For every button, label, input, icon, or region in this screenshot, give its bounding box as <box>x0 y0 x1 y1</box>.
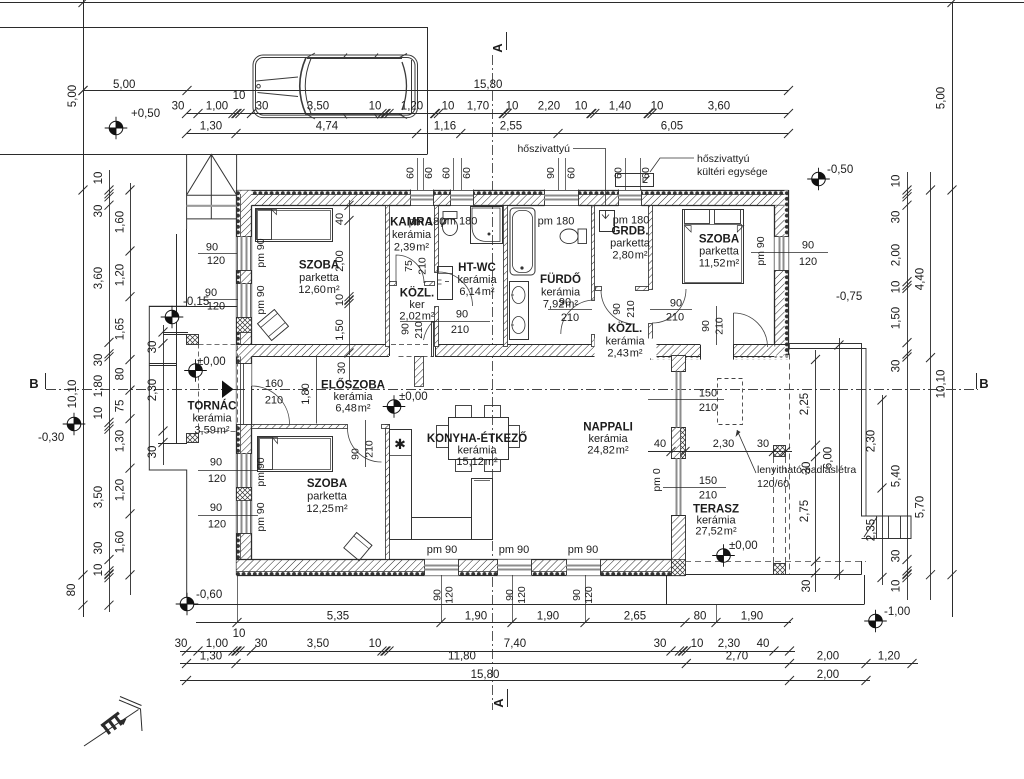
svg-text:150: 150 <box>699 475 717 487</box>
partition grdb | szoba11,52 lower stub <box>649 324 653 347</box>
dim row bottom 1,30/11,80/2,70/2,00/1,20 <box>180 663 918 665</box>
window furdo in top wall <box>545 190 579 207</box>
svg-text:pm 180: pm 180 <box>538 216 575 228</box>
svg-text:2,25: 2,25 <box>799 393 811 415</box>
svg-text:2,30: 2,30 <box>147 379 159 401</box>
gate symbol southwest <box>84 697 142 747</box>
svg-text:90: 90 <box>611 303 623 315</box>
svg-text:120/60: 120/60 <box>757 478 789 490</box>
svg-text:-0,50: -0,50 <box>827 164 853 176</box>
svg-text:10: 10 <box>651 101 664 113</box>
svg-text:1,60: 1,60 <box>115 531 127 553</box>
dim 40/2,30/30 nappali-terasz line <box>648 451 792 453</box>
svg-text:pm 90: pm 90 <box>255 238 267 267</box>
svg-text:2,02 m²: 2,02 m² <box>399 311 434 323</box>
window nappali south 1 <box>425 560 459 576</box>
elevation marker -0,60 southwest <box>176 593 199 616</box>
svg-text:✱: ✱ <box>394 436 406 452</box>
svg-text:1,40: 1,40 <box>609 101 631 113</box>
svg-text:90: 90 <box>206 242 218 254</box>
svg-text:120: 120 <box>444 586 456 604</box>
svg-text:2,30: 2,30 <box>718 638 740 650</box>
svg-text:1,20: 1,20 <box>401 101 423 113</box>
dim chain tornac x163 <box>163 325 165 465</box>
svg-text:30: 30 <box>93 542 105 555</box>
bed in szoba12,60 <box>256 209 333 242</box>
site second line <box>0 27 428 29</box>
svg-text:HT-WC: HT-WC <box>458 262 496 274</box>
svg-text:30: 30 <box>256 101 269 113</box>
svg-text:3,50: 3,50 <box>93 486 105 508</box>
house top wall masonry <box>237 195 789 206</box>
svg-text:kerámia: kerámia <box>457 274 497 286</box>
svg-text:KÖZL.: KÖZL. <box>608 322 643 335</box>
svg-text:±0,00: ±0,00 <box>399 391 428 403</box>
svg-text:3,59 m²: 3,59 m² <box>194 425 229 437</box>
svg-text:1,80: 1,80 <box>300 383 312 404</box>
svg-text:75: 75 <box>403 260 415 272</box>
svg-text:5,70: 5,70 <box>915 496 927 518</box>
svg-text:ker: ker <box>409 299 425 311</box>
door arc ht-wc <box>439 272 473 306</box>
door arc szoba12,25 <box>348 428 382 462</box>
svg-text:210: 210 <box>413 321 425 339</box>
svg-text:80: 80 <box>115 368 127 381</box>
svg-text:-0,60: -0,60 <box>196 589 222 601</box>
svg-text:7,40: 7,40 <box>504 638 526 650</box>
dim chain right x882 2,30/2,35 <box>882 395 884 585</box>
svg-text:120: 120 <box>207 255 225 267</box>
toilet in ht-wc <box>443 212 457 219</box>
svg-text:hőszivattyú: hőszivattyú <box>697 153 750 165</box>
step lines north of tornac <box>163 332 188 334</box>
dim chain right x839 6,00 <box>839 338 841 580</box>
dining chairs <box>456 406 472 418</box>
front walk slab south edge <box>187 604 864 606</box>
svg-text:5,00: 5,00 <box>936 87 948 109</box>
svg-text:2,35: 2,35 <box>866 519 878 541</box>
south wall end cap crosshatch <box>680 560 686 576</box>
svg-text:pm 90: pm 90 <box>568 544 599 556</box>
dim chain right x930 4,40/5,70 <box>930 172 932 600</box>
heat pump outdoor unit box <box>616 174 654 187</box>
svg-text:4,40: 4,40 <box>915 268 927 290</box>
svg-text:30: 30 <box>757 438 769 450</box>
elevation marker +0,50 driveway <box>105 117 128 140</box>
svg-text:5,00: 5,00 <box>113 79 135 91</box>
terrace column north <box>774 446 786 457</box>
svg-text:1,50: 1,50 <box>891 307 903 329</box>
svg-text:60: 60 <box>441 167 453 179</box>
svg-text:2,30: 2,30 <box>866 430 878 452</box>
svg-text:1,90: 1,90 <box>465 611 487 623</box>
svg-text:KONYHA-ÉTKEZŐ: KONYHA-ÉTKEZŐ <box>427 432 527 445</box>
svg-text:10,10: 10,10 <box>936 370 948 399</box>
svg-text:3,50: 3,50 <box>307 638 329 650</box>
garage court east line <box>427 27 429 154</box>
svg-text:210: 210 <box>714 317 726 335</box>
svg-text:2,80 m²: 2,80 m² <box>612 250 647 262</box>
svg-text:11,80: 11,80 <box>448 651 476 663</box>
west wall crosshatch pier lower <box>237 488 252 501</box>
window witness lines through walk <box>237 575 239 623</box>
partition grdb | szoba11,52 upper <box>649 206 653 290</box>
svg-text:10: 10 <box>93 564 105 577</box>
svg-text:+0,50: +0,50 <box>131 108 160 120</box>
elevation marker -0,30 boundary <box>63 413 86 436</box>
svg-text:15,80: 15,80 <box>471 669 500 681</box>
svg-text:30: 30 <box>255 638 268 650</box>
svg-text:pm 90: pm 90 <box>255 457 267 486</box>
partition furdo | grdb <box>592 206 595 301</box>
tornac dashed paving outline <box>199 345 238 432</box>
svg-text:90: 90 <box>350 448 362 460</box>
svg-text:kerámia: kerámia <box>392 229 432 241</box>
partition szoba12,25 north wall west part <box>252 425 348 429</box>
svg-text:90: 90 <box>210 502 222 514</box>
garage court south line <box>0 154 428 156</box>
svg-text:6,00: 6,00 <box>823 447 835 469</box>
front walk east edge <box>864 575 866 605</box>
svg-text:60: 60 <box>461 167 473 179</box>
partition furdo | kozl2,43 lower <box>592 335 595 347</box>
dim row top 1,30/4,74/1,16/2,55/6,05 <box>187 133 789 135</box>
elevation marker -0,50 northeast <box>807 168 830 191</box>
svg-text:kerámia: kerámia <box>457 445 497 457</box>
step lines south of tornac <box>149 363 176 365</box>
svg-text:pm 90: pm 90 <box>255 502 267 531</box>
attic ladder leader arrow <box>737 430 756 473</box>
dim row bottom 5,35/1,90/1,90/2,65/80/1,90 <box>196 622 791 624</box>
svg-text:2,39 m²: 2,39 m² <box>394 242 429 254</box>
svg-text:210: 210 <box>699 402 717 414</box>
window szoba11,52 east wall <box>775 237 789 271</box>
garden path steps west <box>149 306 186 610</box>
east wall masonry upper <box>775 206 785 356</box>
svg-text:parketta: parketta <box>299 272 340 284</box>
window grdb in top wall <box>619 190 642 207</box>
svg-text:10: 10 <box>93 407 105 420</box>
east wall of nappali upper segment <box>672 356 686 372</box>
svg-text:kerámia: kerámia <box>192 413 232 425</box>
svg-text:10: 10 <box>506 101 519 113</box>
bed in szoba11,52 double <box>683 210 744 284</box>
svg-text:24,82 m²: 24,82 m² <box>587 445 629 457</box>
svg-text:1,70: 1,70 <box>467 101 489 113</box>
svg-text:90: 90 <box>802 240 814 252</box>
svg-text:150: 150 <box>699 388 717 400</box>
svg-text:A: A <box>491 698 506 708</box>
svg-text:90: 90 <box>670 298 682 310</box>
svg-text:30: 30 <box>172 101 185 113</box>
svg-text:-0,30: -0,30 <box>38 432 64 444</box>
svg-text:60: 60 <box>405 167 417 179</box>
svg-text:60: 60 <box>640 167 652 179</box>
svg-text:1,20: 1,20 <box>115 479 127 501</box>
partition szoba12,60 | kamra-kozl <box>386 206 390 347</box>
svg-text:parketta: parketta <box>307 490 348 502</box>
svg-text:2,00: 2,00 <box>817 651 839 663</box>
dining table <box>449 418 509 460</box>
window konyha south 2 <box>498 560 532 576</box>
svg-text:2,20: 2,20 <box>538 101 560 113</box>
svg-text:40: 40 <box>654 438 666 450</box>
west wall masonry <box>237 191 241 576</box>
elevation marker +0,00 eloszoba <box>383 395 406 418</box>
svg-text:parketta: parketta <box>610 238 651 250</box>
bathtub in furdo <box>510 208 535 275</box>
door leaf eloszoba-kozl door <box>432 322 434 357</box>
top wall window witness lines and 60 labels <box>417 158 419 190</box>
washbasin cabinet in furdo <box>510 282 529 340</box>
svg-text:2,00: 2,00 <box>891 244 903 266</box>
window nappali south 3 <box>567 560 601 576</box>
south wall masonry <box>237 560 686 572</box>
section line B-B horizontal dash-dot <box>46 389 978 391</box>
svg-text:KÖZL.: KÖZL. <box>400 287 435 300</box>
partition kamra | ht-wc lower <box>435 307 439 347</box>
terrace south edge solid <box>685 574 862 576</box>
svg-text:10: 10 <box>369 638 382 650</box>
svg-text:30: 30 <box>336 362 348 374</box>
svg-text:90: 90 <box>205 287 217 299</box>
washbasin in ht-wc <box>438 267 453 300</box>
svg-text:27,52 m²: 27,52 m² <box>695 526 737 538</box>
car top view in driveway <box>253 53 418 119</box>
entrance direction triangle <box>222 381 234 399</box>
terrace slider lower in east wall (150) <box>671 458 685 460</box>
svg-text:kerámia: kerámia <box>605 335 645 347</box>
chimney-garden structure left line <box>186 229 188 306</box>
door arc kamra <box>396 255 424 283</box>
svg-text:30: 30 <box>93 354 105 367</box>
svg-text:90: 90 <box>545 167 557 179</box>
svg-text:B: B <box>979 376 988 391</box>
bed in szoba12,25 <box>258 437 333 472</box>
svg-text:90: 90 <box>456 309 468 321</box>
svg-text:3,50: 3,50 <box>307 101 329 113</box>
dim chain left boundary 5,00 / 10,10 / 80 <box>79 0 88 7</box>
svg-text:75: 75 <box>115 400 127 413</box>
kitchen counter along partition <box>390 430 412 540</box>
svg-text:10: 10 <box>891 175 903 188</box>
dim chain right x907 <box>907 172 909 600</box>
svg-text:160: 160 <box>265 378 283 390</box>
svg-text:90: 90 <box>504 589 516 601</box>
svg-text:1,20: 1,20 <box>878 651 900 663</box>
svg-text:2,55: 2,55 <box>500 121 522 133</box>
house top wall insulation dot band <box>237 191 789 195</box>
svg-text:1,90: 1,90 <box>537 611 559 623</box>
svg-text:kerámia: kerámia <box>588 433 628 445</box>
entrance door opening in west wall <box>237 364 252 425</box>
partition szoba12,25 | konyha <box>386 425 390 560</box>
svg-text:60: 60 <box>423 167 435 179</box>
tornac column south <box>187 434 199 443</box>
corridor wall segment east of passage <box>651 345 701 357</box>
svg-text:1,30: 1,30 <box>115 430 127 452</box>
svg-text:TORNÁC: TORNÁC <box>188 400 237 413</box>
svg-text:6,48 m²: 6,48 m² <box>335 403 370 415</box>
kitchen tall cabinet <box>472 479 493 540</box>
svg-text:NAPPALI: NAPPALI <box>583 422 633 434</box>
east wall of nappali pier <box>672 428 686 459</box>
corridor wall segment at terrace door <box>734 345 775 357</box>
svg-text:-1,00: -1,00 <box>884 606 910 618</box>
svg-text:2,00: 2,00 <box>334 250 346 271</box>
door arc szoba11,52 <box>652 289 686 323</box>
svg-text:SZOBA: SZOBA <box>699 234 739 246</box>
partition szoba12,25 north wall east jamb <box>382 425 390 429</box>
window ht-wc in top wall <box>451 190 474 207</box>
tornac slab edge line <box>176 234 178 444</box>
door arc nappali to kozl2,43 <box>734 313 768 347</box>
svg-text:90: 90 <box>432 589 444 601</box>
exterior steps east <box>876 516 878 539</box>
svg-text:2,65: 2,65 <box>624 611 646 623</box>
svg-text:1,60: 1,60 <box>115 211 127 233</box>
svg-text:90: 90 <box>700 320 712 332</box>
svg-text:pm 90: pm 90 <box>499 544 530 556</box>
terrace door upper in east wall (150) <box>671 371 685 373</box>
partition kamra | ht-wc upper <box>435 206 439 273</box>
svg-text:60: 60 <box>566 167 578 179</box>
corridor wall segment middle <box>436 345 606 357</box>
svg-text:60: 60 <box>613 167 625 179</box>
svg-text:120: 120 <box>516 586 528 604</box>
svg-text:30: 30 <box>801 462 813 475</box>
north walk edge <box>149 306 237 308</box>
shower in ht-wc <box>471 207 503 244</box>
attic ladder dashed rect <box>718 379 743 425</box>
svg-text:±0,00: ±0,00 <box>729 540 758 552</box>
svg-text:6,14 m²: 6,14 m² <box>459 286 494 298</box>
svg-text:10: 10 <box>891 281 903 294</box>
svg-text:10: 10 <box>334 294 346 306</box>
svg-text:11,52 m²: 11,52 m² <box>699 258 740 270</box>
svg-text:2,30: 2,30 <box>713 438 734 450</box>
front walk divider west of terrace <box>666 575 668 605</box>
svg-text:FÜRDŐ: FÜRDŐ <box>540 273 581 286</box>
svg-text:kültéri egysége: kültéri egysége <box>697 166 768 178</box>
svg-text:KAMRA: KAMRA <box>390 217 433 229</box>
dim row bottom 15,80/2,00 <box>180 680 870 682</box>
site boundary right line <box>952 3 954 618</box>
window szoba12,25 west lower <box>237 500 252 534</box>
svg-text:120: 120 <box>799 256 817 268</box>
svg-text:kerámia: kerámia <box>333 391 373 403</box>
dim chain right x815 terrace <box>815 350 817 592</box>
svg-text:210: 210 <box>699 490 717 502</box>
svg-text:80: 80 <box>66 584 78 597</box>
svg-text:30: 30 <box>891 550 903 563</box>
svg-text:30: 30 <box>175 638 188 650</box>
svg-text:30: 30 <box>891 360 903 373</box>
svg-text:40: 40 <box>334 213 346 225</box>
dim chain left x130 <box>130 183 132 595</box>
svg-text:pm 90: pm 90 <box>427 544 458 556</box>
svg-text:12,25 m²: 12,25 m² <box>306 503 348 515</box>
svg-text:90: 90 <box>400 323 412 335</box>
window kamra in top wall <box>411 190 434 207</box>
tornac slab south edge <box>158 443 187 445</box>
svg-text:30: 30 <box>147 341 159 354</box>
heat pump indoor unit in grdb <box>600 211 615 232</box>
svg-text:pm 90: pm 90 <box>255 285 267 314</box>
svg-text:pm 0: pm 0 <box>651 468 663 492</box>
svg-text:30: 30 <box>93 205 105 218</box>
partition kamra south wall <box>390 282 397 286</box>
svg-text:15,12 m²: 15,12 m² <box>456 456 498 468</box>
window szoba12,60 west lower <box>237 284 252 318</box>
svg-text:1,30: 1,30 <box>200 121 222 133</box>
svg-text:30: 30 <box>801 580 813 593</box>
window szoba12,60 west upper <box>237 237 252 271</box>
svg-text:90: 90 <box>559 297 571 309</box>
svg-text:210: 210 <box>666 312 684 324</box>
svg-text:3,60: 3,60 <box>93 267 105 289</box>
dim row bottom 30/1,00/10/30/3,50/10/7,40/30/10/2,30/40 <box>180 651 795 653</box>
svg-text:15,80: 15,80 <box>474 79 503 91</box>
svg-text:210: 210 <box>451 324 469 336</box>
partition grdb south wall <box>596 287 602 291</box>
svg-text:1,65: 1,65 <box>115 318 127 340</box>
east wall of nappali lower segment <box>672 516 686 576</box>
svg-text:pm 90: pm 90 <box>755 236 767 265</box>
svg-text:1,90: 1,90 <box>741 611 763 623</box>
terrace beam dashed between columns <box>773 457 775 563</box>
elevation marker +0,00 tornac <box>184 359 207 382</box>
elevation marker -0,15 west <box>161 306 184 329</box>
svg-text:90: 90 <box>210 457 222 469</box>
svg-text:1,80: 1,80 <box>93 375 105 397</box>
svg-text:SZOBA: SZOBA <box>307 478 347 490</box>
svg-text:B: B <box>29 376 38 391</box>
svg-text:3,60: 3,60 <box>708 101 730 113</box>
svg-text:120: 120 <box>207 301 225 313</box>
svg-text:210: 210 <box>417 257 429 275</box>
svg-text:210: 210 <box>265 395 283 407</box>
dim chain left x109 <box>109 170 111 612</box>
tornac column north <box>187 335 199 345</box>
terrace roof overhang dashed south <box>685 561 866 563</box>
svg-text:4,74: 4,74 <box>316 121 339 133</box>
door lintel dashed over eloszoba-kozl opening <box>391 344 433 346</box>
room label kozl 2,43 with white backing <box>595 339 657 359</box>
svg-text:120: 120 <box>208 473 226 485</box>
partition ht-wc | furdo <box>504 206 508 347</box>
elevation marker -1,00 southeast <box>864 610 887 633</box>
svg-text:80: 80 <box>694 611 707 623</box>
armchair in szoba12,60 <box>258 310 289 341</box>
svg-text:10: 10 <box>442 101 455 113</box>
svg-text:A: A <box>490 43 505 53</box>
section line A-A vertical dash-dot <box>492 55 494 710</box>
west wall crosshatch pier upper <box>237 318 252 333</box>
svg-text:2,75: 2,75 <box>799 500 811 522</box>
svg-text:10: 10 <box>691 638 704 650</box>
svg-text:1,20: 1,20 <box>115 264 127 286</box>
chimney structure top <box>187 154 237 229</box>
svg-text:120: 120 <box>208 519 226 531</box>
svg-text:30: 30 <box>891 211 903 224</box>
svg-text:-0,75: -0,75 <box>836 291 862 303</box>
svg-text:10: 10 <box>575 101 588 113</box>
svg-text:ELŐSZOBA: ELŐSZOBA <box>321 379 385 392</box>
terrace roof overhang dashed east <box>789 344 791 576</box>
svg-text:10: 10 <box>369 101 382 113</box>
svg-text:parketta: parketta <box>699 246 740 258</box>
